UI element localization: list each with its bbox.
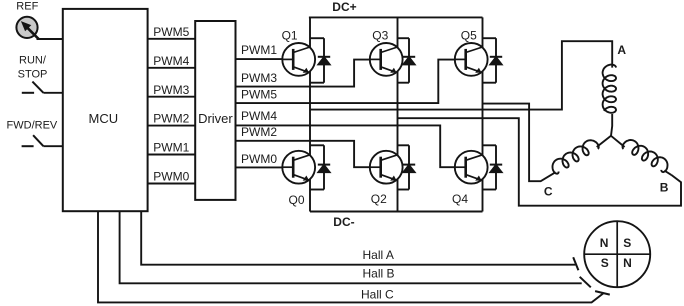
svg-text:B: B — [660, 180, 669, 194]
motor winding A coil — [603, 65, 616, 113]
wire PWM1 driver to Q1 base — [236, 58, 283, 60]
hall sensor tick A — [573, 257, 578, 270]
svg-text:Q1: Q1 — [282, 29, 298, 43]
svg-text:PWM5: PWM5 — [153, 25, 189, 39]
MCU U1 — [63, 9, 148, 211]
transistor Q3 — [370, 43, 403, 76]
switch RUN/STOP — [22, 82, 44, 93]
svg-text:FWD/REV: FWD/REV — [7, 120, 58, 132]
wire half-bridge 1 vertical — [309, 17, 311, 211]
transistor Q5 — [455, 43, 488, 76]
svg-text:A: A — [617, 43, 626, 57]
transistor Q0 — [282, 151, 315, 184]
wire PWM2 driver to Q2 base — [236, 141, 370, 167]
wire PWM4 driver to Q4 base — [236, 125, 455, 167]
svg-text:Q4: Q4 — [452, 192, 468, 206]
wire phase B from bridge2 to motor — [398, 118, 682, 206]
svg-text:REF: REF — [16, 1, 38, 13]
wire MCU PWM5 to Driver — [148, 38, 196, 40]
motor winding C coil — [553, 140, 599, 174]
wire FWD/REV to MCU — [43, 145, 62, 147]
svg-text:Hall C: Hall C — [361, 287, 394, 301]
svg-text:STOP: STOP — [18, 68, 48, 80]
svg-text:PWM0: PWM0 — [153, 170, 189, 184]
svg-text:Q5: Q5 — [461, 29, 477, 43]
potentiometer REF — [16, 17, 38, 39]
wire star to B coil — [611, 136, 625, 147]
svg-text:PWM3: PWM3 — [153, 83, 189, 97]
svg-text:PWM1: PWM1 — [241, 43, 277, 57]
wire MCU PWM4 to Driver — [148, 67, 196, 69]
svg-text:RUN/: RUN/ — [19, 55, 47, 67]
svg-text:PWM1: PWM1 — [153, 141, 189, 155]
wire PWM5 driver to Q5 base — [236, 60, 455, 104]
DC- rail — [310, 211, 483, 213]
svg-text:Hall B: Hall B — [363, 267, 395, 281]
svg-text:PWM4: PWM4 — [153, 54, 189, 68]
svg-text:PWM2: PWM2 — [241, 125, 277, 139]
svg-text:S: S — [623, 236, 631, 250]
svg-text:N: N — [600, 236, 609, 250]
diode D3 — [398, 38, 416, 82]
hall rotor circle — [584, 221, 650, 287]
transistor Q1 — [282, 43, 315, 76]
wire half-bridge 3 vertical — [482, 17, 484, 211]
svg-text:Q0: Q0 — [289, 193, 305, 207]
svg-text:S: S — [601, 256, 609, 270]
wire star to C coil — [597, 136, 611, 147]
svg-text:PWM4: PWM4 — [241, 109, 277, 123]
diode D1 — [310, 38, 330, 82]
diode D4 — [483, 145, 503, 189]
svg-text:C: C — [544, 185, 553, 199]
wire phase C from bridge3 to motor — [483, 104, 556, 182]
wire phase A from bridge1 to motor — [310, 41, 612, 109]
wire Hall B — [120, 211, 582, 283]
DC+ rail — [309, 16, 483, 18]
svg-text:PWM5: PWM5 — [241, 87, 277, 101]
svg-text:DC-: DC- — [333, 215, 354, 229]
wire MCU PWM3 to Driver — [148, 96, 196, 98]
svg-text:Driver: Driver — [198, 111, 233, 126]
wire PWM0 driver to Q0 base — [236, 166, 283, 168]
wire RUN/STOP to MCU — [43, 92, 62, 94]
diode D2 — [398, 145, 416, 189]
diode D0 — [310, 145, 330, 189]
wire PWM3 driver to Q3 base — [236, 60, 370, 87]
wire A coil to star node — [611, 114, 612, 136]
svg-text:N: N — [623, 256, 632, 270]
svg-text:Q2: Q2 — [371, 192, 387, 206]
wire MCU PWM1 to Driver — [148, 154, 196, 156]
driver U2 — [195, 21, 235, 200]
motor winding B coil — [623, 140, 668, 172]
svg-text:MCU: MCU — [88, 111, 118, 126]
wire Hall C — [98, 211, 604, 302]
wire REF to MCU — [37, 38, 63, 40]
transistor Q2 — [370, 151, 403, 184]
wire MCU PWM2 to Driver — [148, 125, 196, 127]
svg-text:DC+: DC+ — [332, 0, 356, 14]
svg-text:PWM0: PWM0 — [241, 152, 277, 166]
wire Hall A — [141, 211, 575, 265]
svg-text:PWM2: PWM2 — [153, 112, 189, 126]
svg-text:Q3: Q3 — [372, 29, 388, 43]
wire half-bridge 2 vertical — [397, 17, 399, 211]
wire B coil exit — [664, 171, 671, 175]
svg-text:Hall A: Hall A — [363, 248, 394, 262]
diode D5 — [483, 38, 503, 82]
switch FWD/REV — [22, 135, 44, 146]
svg-text:PWM3: PWM3 — [241, 71, 277, 85]
hall sensor tick B — [580, 277, 591, 288]
transistor Q4 — [455, 151, 488, 184]
wire MCU PWM0 to Driver — [148, 183, 196, 185]
hall sensor tick C — [595, 291, 610, 295]
